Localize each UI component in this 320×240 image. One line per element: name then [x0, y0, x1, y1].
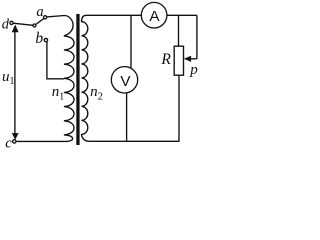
svg-text:c: c	[5, 136, 12, 149]
svg-text:d: d	[2, 16, 10, 32]
wiper wire	[191, 58, 197, 60]
voltmeter V	[111, 67, 137, 93]
node b	[44, 38, 47, 41]
wire b tap	[47, 42, 64, 79]
transformer core	[76, 14, 79, 145]
svg-text:p: p	[189, 62, 198, 78]
node c	[13, 140, 16, 143]
secondary winding n2	[82, 15, 180, 141]
switch pivot circle	[33, 24, 36, 27]
top wire right of ammeter	[167, 14, 197, 16]
top wire left of ammeter	[91, 14, 142, 16]
svg-text:n2: n2	[90, 84, 103, 102]
svg-text:R: R	[160, 51, 171, 68]
wire d to switch	[13, 23, 33, 25]
voltmeter branch wire	[130, 15, 132, 68]
switch blade	[36, 19, 44, 25]
primary winding n1	[16, 16, 74, 142]
svg-text:V: V	[120, 73, 131, 90]
svg-text:u1: u1	[2, 69, 15, 87]
svg-text:n1: n1	[52, 84, 65, 102]
node d	[10, 21, 13, 24]
svg-text:a: a	[36, 4, 43, 20]
voltage arrow u1 line	[14, 32, 16, 134]
wire right edge down to wiper	[196, 15, 198, 58]
arrowhead up	[12, 25, 19, 33]
resistor top lead	[178, 15, 180, 46]
resistor bottom lead	[178, 75, 180, 141]
voltmeter bottom wire	[126, 93, 128, 141]
resistor R body	[174, 46, 183, 75]
node a	[44, 16, 47, 19]
svg-text:b: b	[35, 30, 43, 47]
ammeter A	[141, 2, 167, 28]
arrowhead down	[12, 133, 19, 140]
svg-text:A: A	[149, 8, 160, 25]
wiper arrowhead	[184, 56, 191, 62]
